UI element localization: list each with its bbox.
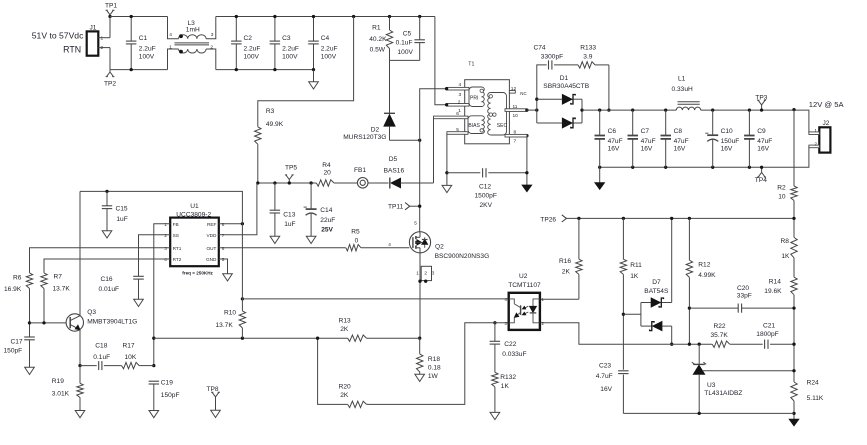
- wire U1 RT2 to R7: [44, 259, 170, 273]
- svg-text:47uF: 47uF: [641, 138, 656, 145]
- T1 pin 12 NC stub: [509, 86, 526, 96]
- svg-text:R14: R14: [769, 279, 781, 286]
- svg-text:R5: R5: [351, 229, 360, 236]
- test point TP26: [540, 215, 566, 224]
- wire U1 SS pin: [139, 235, 171, 276]
- svg-text:2: 2: [458, 99, 461, 105]
- svg-text:3: 3: [459, 92, 462, 98]
- ground secondary feedback: [789, 412, 799, 426]
- wire U1 VDD pin up to VDD rail: [219, 183, 257, 235]
- svg-text:R133: R133: [580, 44, 596, 51]
- svg-text:16V: 16V: [721, 146, 733, 153]
- svg-text:0.033uF: 0.033uF: [502, 351, 526, 358]
- T1 pin bar 4-3: [445, 82, 469, 98]
- svg-text:NC: NC: [520, 91, 526, 96]
- svg-text:20: 20: [324, 169, 332, 176]
- svg-text:0.33uH: 0.33uH: [672, 86, 694, 93]
- svg-text:REF: REF: [207, 222, 217, 227]
- svg-text:TP11: TP11: [388, 203, 404, 210]
- svg-text:100V: 100V: [139, 54, 155, 61]
- transistor Q3 MMBT3904LT1G: [66, 309, 137, 331]
- svg-text:RTN: RTN: [63, 45, 81, 55]
- svg-text:8: 8: [514, 129, 517, 135]
- svg-text:8: 8: [222, 222, 225, 227]
- wire D2 anode to switch node: [390, 139, 420, 141]
- svg-text:OUT: OUT: [206, 246, 216, 251]
- svg-text:C21: C21: [763, 322, 775, 329]
- svg-text:U3: U3: [707, 382, 716, 389]
- ground R18: [415, 374, 425, 381]
- resistor R8: [781, 218, 798, 277]
- svg-text:C20: C20: [737, 285, 749, 292]
- T1 pin bar 8-7: [505, 129, 527, 144]
- svg-text:MMBT3904LT1G: MMBT3904LT1G: [87, 319, 137, 326]
- wire output rail to J2: [701, 110, 809, 133]
- svg-text:R18: R18: [428, 356, 440, 363]
- transistor Q2 BSC900N20NS3G: [409, 220, 489, 259]
- svg-text:19.6K: 19.6K: [764, 288, 782, 295]
- capacitor C1: [126, 15, 156, 71]
- svg-text:FB: FB: [173, 222, 179, 227]
- svg-text:150uF: 150uF: [721, 138, 740, 145]
- svg-text:5: 5: [414, 220, 417, 225]
- ground primary input: [309, 70, 319, 89]
- inductor L3 common-mode choke: [168, 17, 216, 70]
- svg-text:10: 10: [778, 193, 786, 200]
- resistor R5: [346, 229, 361, 251]
- svg-text:12V @ 5A: 12V @ 5A: [809, 100, 845, 109]
- capacitor C22: [490, 321, 527, 372]
- wire REF divider vertical: [241, 224, 243, 299]
- svg-text:2.2uF: 2.2uF: [282, 46, 299, 53]
- svg-text:MURS120T3G: MURS120T3G: [343, 134, 386, 141]
- svg-text:16V: 16V: [641, 146, 653, 153]
- capacitor C16: [99, 276, 144, 300]
- svg-text:3.9: 3.9: [583, 53, 592, 60]
- wire T1 pins 8-7 to secondary ground: [525, 134, 528, 185]
- svg-text:2.2uF: 2.2uF: [244, 46, 261, 53]
- inductor L1: [672, 76, 701, 110]
- resistor R20: [339, 384, 367, 408]
- svg-text:13.7K: 13.7K: [216, 322, 234, 329]
- svg-text:RT2: RT2: [173, 257, 182, 262]
- svg-text:D7: D7: [652, 279, 661, 286]
- ferrite bead FB1: [334, 167, 368, 188]
- svg-text:TP2: TP2: [104, 80, 116, 87]
- svg-text:C7: C7: [641, 128, 650, 135]
- svg-text:2K: 2K: [340, 326, 349, 333]
- svg-text:0.18: 0.18: [428, 364, 441, 371]
- wire TP26 net: [566, 217, 794, 219]
- svg-text:6: 6: [222, 246, 225, 251]
- svg-text:2.2uF: 2.2uF: [139, 46, 156, 53]
- resistor R17: [122, 342, 154, 368]
- ground C19: [149, 411, 159, 418]
- svg-text:D5: D5: [389, 156, 398, 163]
- wire J1.2 to bottom rail: [109, 48, 111, 70]
- svg-text:0: 0: [355, 237, 359, 244]
- T1 pin bar 11-10: [505, 104, 529, 119]
- wire bottom rail input: [110, 69, 168, 71]
- wire R1-C5 snubber bottom: [390, 59, 420, 61]
- wire feedback bottom: [623, 412, 794, 414]
- resistor R18: [417, 338, 442, 380]
- svg-text:0.1uF: 0.1uF: [93, 354, 110, 361]
- capacitor C17: [4, 321, 35, 367]
- wire U1 REF to node: [219, 223, 243, 225]
- svg-text:100V: 100V: [244, 54, 260, 61]
- test point TP3: [755, 95, 767, 112]
- capacitor C4: [308, 15, 337, 71]
- svg-text:PRI: PRI: [470, 96, 478, 102]
- resistor R7: [41, 273, 71, 323]
- svg-text:5: 5: [456, 127, 459, 133]
- svg-text:22uF: 22uF: [320, 217, 335, 224]
- svg-text:C8: C8: [674, 128, 683, 135]
- wire opto collector net: [242, 298, 508, 300]
- ground C14: [306, 236, 316, 243]
- resistor R12: [686, 217, 716, 344]
- resistor R3: [255, 108, 284, 183]
- resistor R13: [339, 317, 420, 341]
- resistor R16: [559, 217, 582, 299]
- svg-text:4: 4: [388, 242, 391, 247]
- svg-text:35.7K: 35.7K: [711, 332, 729, 339]
- svg-text:2: 2: [164, 233, 167, 238]
- svg-text:C18: C18: [95, 342, 107, 349]
- wire R3 tap from top rail: [258, 15, 355, 127]
- svg-text:16V: 16V: [757, 146, 769, 153]
- shunt regulator U3 TL431AIDBZ: [692, 343, 743, 414]
- svg-text:2K: 2K: [562, 269, 571, 276]
- ground C16: [134, 299, 144, 306]
- svg-text:25V: 25V: [321, 227, 333, 234]
- svg-text:R132: R132: [500, 374, 516, 381]
- wire top rail drop to T1 pins 2-1: [435, 17, 447, 105]
- ground primary bias: [442, 171, 452, 192]
- svg-text:R4: R4: [322, 162, 331, 169]
- svg-text:1mH: 1mH: [186, 27, 200, 34]
- svg-text:R22: R22: [714, 323, 726, 330]
- svg-text:10K: 10K: [125, 354, 137, 361]
- svg-text:4.7uF: 4.7uF: [596, 373, 613, 380]
- capacitor C6: [595, 108, 623, 169]
- svg-text:C1: C1: [139, 35, 148, 42]
- svg-text:U2: U2: [519, 273, 528, 280]
- svg-text:C2: C2: [244, 35, 253, 42]
- snubber tap wire: [535, 65, 547, 123]
- transformer T1: [465, 62, 510, 144]
- svg-text:R3: R3: [266, 108, 275, 115]
- svg-text:7: 7: [514, 139, 517, 145]
- capacitor C14 polarized: [304, 181, 336, 236]
- test point TP8: [207, 386, 221, 418]
- svg-text:TCMT1107: TCMT1107: [508, 282, 541, 289]
- svg-text:100V: 100V: [282, 54, 298, 61]
- svg-text:Q2: Q2: [435, 244, 444, 251]
- svg-text:1K: 1K: [781, 253, 790, 260]
- svg-text:SEC: SEC: [497, 123, 508, 129]
- ground C15: [102, 231, 112, 238]
- capacitor C23: [596, 362, 629, 413]
- svg-text:D2: D2: [371, 127, 380, 134]
- resistor R19: [52, 366, 83, 411]
- capacitor C15: [102, 190, 128, 231]
- resistor R24: [791, 344, 824, 419]
- svg-text:TP4: TP4: [755, 177, 767, 184]
- svg-text:4: 4: [169, 32, 172, 38]
- svg-text:3300pF: 3300pF: [541, 53, 563, 60]
- svg-text:R16: R16: [559, 258, 571, 265]
- wire T1 secondary to D1: [527, 109, 537, 111]
- wire switch node vertical to T1 pins 4-3: [420, 89, 447, 232]
- svg-text:freq = 250KHz: freq = 250KHz: [182, 270, 213, 275]
- capacitor C7: [628, 108, 656, 169]
- svg-text:47uF: 47uF: [757, 138, 772, 145]
- Q2 source pins 1-2-3: [416, 266, 435, 283]
- capacitor C10: [705, 108, 739, 169]
- test point TP4: [755, 166, 767, 185]
- svg-text:R6: R6: [13, 274, 22, 281]
- svg-text:C74: C74: [534, 44, 546, 51]
- ground U1: [223, 274, 233, 281]
- svg-text:SS: SS: [173, 233, 179, 238]
- svg-text:1uF: 1uF: [284, 221, 295, 228]
- resistor R11: [620, 217, 642, 370]
- svg-text:0.01uF: 0.01uF: [99, 286, 120, 293]
- resistor R6: [4, 273, 33, 337]
- svg-text:C6: C6: [608, 128, 617, 135]
- svg-text:R12: R12: [698, 261, 710, 268]
- svg-text:C13: C13: [283, 211, 295, 218]
- svg-text:2K: 2K: [340, 392, 349, 399]
- svg-text:R2: R2: [777, 184, 786, 191]
- capacitor C9: [744, 108, 772, 169]
- svg-text:3: 3: [211, 32, 214, 38]
- capacitor C19: [149, 379, 180, 410]
- capacitor C2: [231, 15, 260, 71]
- diode D7 BAT54S dual schottky: [622, 217, 674, 346]
- capacitor C20: [688, 285, 796, 346]
- wire T1 pin 5 to primary ground: [446, 133, 448, 173]
- diode D5 BAS16: [368, 156, 434, 188]
- svg-text:C22: C22: [504, 341, 516, 348]
- svg-text:C12: C12: [479, 183, 491, 190]
- svg-text:7: 7: [222, 233, 225, 238]
- wire U2 emitter to feedback net: [540, 323, 712, 344]
- connector J2 output: [809, 120, 830, 152]
- T1 pin bar 2-1: [445, 99, 469, 114]
- svg-text:SBR30A45CTB: SBR30A45CTB: [543, 83, 589, 90]
- test point TP5: [285, 164, 298, 184]
- svg-text:R11: R11: [630, 262, 642, 269]
- wire Q2 source: [419, 253, 421, 338]
- svg-text:3: 3: [432, 271, 435, 276]
- svg-text:1: 1: [101, 35, 104, 41]
- wire snubber to output rail: [608, 65, 610, 110]
- ground R19: [75, 411, 85, 418]
- svg-text:C5: C5: [403, 31, 412, 38]
- svg-text:R7: R7: [54, 274, 63, 281]
- wire U3 ref: [703, 370, 794, 372]
- svg-text:TP5: TP5: [285, 164, 297, 171]
- svg-text:R20: R20: [339, 384, 351, 391]
- wire Q3 base net: [30, 322, 67, 324]
- svg-text:47uF: 47uF: [608, 138, 623, 145]
- wire R20 branch: [318, 338, 348, 404]
- svg-text:TP1: TP1: [105, 3, 117, 10]
- wire R5 to Q2 gate: [361, 247, 410, 249]
- wire U1 FB pin down: [154, 224, 170, 366]
- svg-text:6: 6: [456, 111, 459, 117]
- resistor R10: [216, 297, 246, 340]
- wire D5 to T1 pin 6: [433, 117, 435, 183]
- svg-text:40.2K: 40.2K: [369, 36, 387, 43]
- svg-text:2: 2: [101, 45, 104, 51]
- svg-text:FB1: FB1: [354, 167, 366, 174]
- wire output rail to L1: [582, 109, 676, 111]
- svg-text:51V to 57Vdc: 51V to 57Vdc: [32, 31, 84, 41]
- svg-text:5.11K: 5.11K: [807, 395, 824, 402]
- svg-text:C9: C9: [757, 128, 766, 135]
- svg-text:150pF: 150pF: [4, 347, 23, 354]
- svg-text:R19: R19: [52, 378, 64, 385]
- capacitor C18: [80, 342, 122, 370]
- wire R20 to U2 diode: [367, 323, 509, 405]
- svg-text:C23: C23: [599, 362, 611, 369]
- svg-text:3: 3: [164, 246, 167, 251]
- svg-text:5: 5: [222, 257, 225, 262]
- svg-text:BIAS: BIAS: [468, 123, 480, 129]
- svg-text:16V: 16V: [608, 146, 620, 153]
- svg-text:1uF: 1uF: [116, 216, 127, 223]
- resistor R22: [711, 323, 763, 347]
- svg-text:R24: R24: [807, 380, 819, 387]
- svg-text:BAS16: BAS16: [384, 167, 405, 174]
- svg-text:R13: R13: [339, 317, 351, 324]
- svg-text:C3: C3: [282, 35, 291, 42]
- test point TP1: [105, 3, 117, 19]
- resistor R14: [764, 277, 797, 344]
- resistor R1: [369, 15, 392, 61]
- svg-text:4: 4: [164, 257, 167, 262]
- svg-text:J1: J1: [90, 24, 97, 31]
- svg-text:3.01K: 3.01K: [52, 391, 70, 398]
- svg-text:BAT54S: BAT54S: [644, 288, 669, 295]
- svg-text:C19: C19: [161, 379, 173, 386]
- svg-text:C4: C4: [321, 35, 330, 42]
- ground secondary output: [595, 167, 605, 189]
- svg-text:L1: L1: [678, 76, 686, 83]
- svg-text:C16: C16: [101, 276, 113, 283]
- wire Q3 collector to REF rail: [79, 191, 81, 316]
- svg-text:1: 1: [416, 271, 419, 276]
- svg-text:2.2uF: 2.2uF: [321, 46, 338, 53]
- svg-text:TP26: TP26: [540, 216, 556, 223]
- svg-text:R1: R1: [372, 24, 381, 31]
- svg-text:12: 12: [511, 86, 517, 92]
- svg-text:11: 11: [513, 104, 518, 110]
- wire REF bypass rail: [80, 191, 242, 223]
- svg-text:1500pF: 1500pF: [475, 193, 497, 200]
- capacitor C21: [756, 322, 795, 348]
- svg-text:BSC900N20NS3G: BSC900N20NS3G: [435, 253, 490, 260]
- svg-text:4.99K: 4.99K: [698, 272, 716, 279]
- svg-text:2: 2: [424, 271, 427, 276]
- T1 pin bar 6: [434, 111, 469, 119]
- svg-text:VDD: VDD: [206, 233, 217, 238]
- svg-text:10: 10: [513, 113, 519, 119]
- svg-text:Q3: Q3: [87, 309, 96, 316]
- svg-text:1W: 1W: [428, 373, 439, 380]
- svg-text:100V: 100V: [321, 54, 337, 61]
- svg-text:16V: 16V: [600, 386, 612, 393]
- controller U1 UCC3809-2: [164, 203, 225, 275]
- svg-text:150pF: 150pF: [161, 392, 180, 399]
- resistor R2: [777, 108, 797, 218]
- wire Q3 emitter: [79, 330, 81, 366]
- svg-text:33pF: 33pF: [737, 293, 752, 300]
- svg-text:D1: D1: [560, 75, 569, 82]
- svg-text:100V: 100V: [397, 49, 413, 56]
- wire output bottom rail: [600, 146, 809, 167]
- svg-text:2KV: 2KV: [480, 202, 493, 209]
- svg-text:49.9K: 49.9K: [266, 121, 284, 128]
- diode D1 SBR30A45CTB dual: [537, 75, 590, 128]
- svg-text:4: 4: [459, 82, 462, 88]
- svg-text:C10: C10: [721, 128, 733, 135]
- wire VDD rail: [258, 182, 317, 184]
- ground C17: [25, 367, 35, 374]
- wire U1 RT1 to R6: [30, 248, 171, 273]
- svg-text:TL431AIDBZ: TL431AIDBZ: [704, 390, 742, 397]
- ground secondary C12: [522, 185, 532, 192]
- svg-text:0.5W: 0.5W: [370, 46, 386, 53]
- svg-text:1K: 1K: [501, 383, 510, 390]
- svg-text:13.7K: 13.7K: [53, 286, 71, 293]
- test point TP2: [104, 70, 116, 88]
- wire U1 OUT to R5: [219, 247, 346, 249]
- resistor R133: [578, 44, 609, 68]
- wire current sense node: [154, 337, 348, 339]
- svg-text:R8: R8: [781, 238, 790, 245]
- svg-text:1K: 1K: [630, 273, 639, 280]
- svg-text:1800pF: 1800pF: [756, 331, 778, 338]
- optocoupler U2 TCMT1107: [505, 273, 545, 330]
- wire U1 GND pin to ground: [219, 259, 228, 274]
- wire J1.1 to top rail: [109, 17, 111, 38]
- resistor R132: [492, 372, 517, 412]
- svg-text:1: 1: [169, 44, 172, 50]
- capacitor C8: [661, 108, 689, 169]
- svg-text:GND: GND: [206, 257, 217, 262]
- capacitor C12 Y-cap: [447, 168, 527, 209]
- capacitor C13: [270, 181, 296, 236]
- wire R16 to U2 collector out: [540, 298, 579, 300]
- svg-text:RT1: RT1: [173, 246, 182, 251]
- svg-text:1: 1: [164, 222, 167, 227]
- ground R132: [490, 412, 500, 419]
- svg-text:U1: U1: [190, 203, 199, 210]
- T1 pin bar 5: [447, 127, 468, 134]
- svg-text:R17: R17: [123, 342, 135, 349]
- svg-text:16.9K: 16.9K: [4, 286, 22, 293]
- svg-text:0.1uF: 0.1uF: [396, 40, 413, 47]
- capacitor C5: [396, 15, 425, 61]
- capacitor C3: [270, 15, 299, 71]
- ground C13: [270, 236, 280, 243]
- svg-text:C17: C17: [11, 339, 23, 346]
